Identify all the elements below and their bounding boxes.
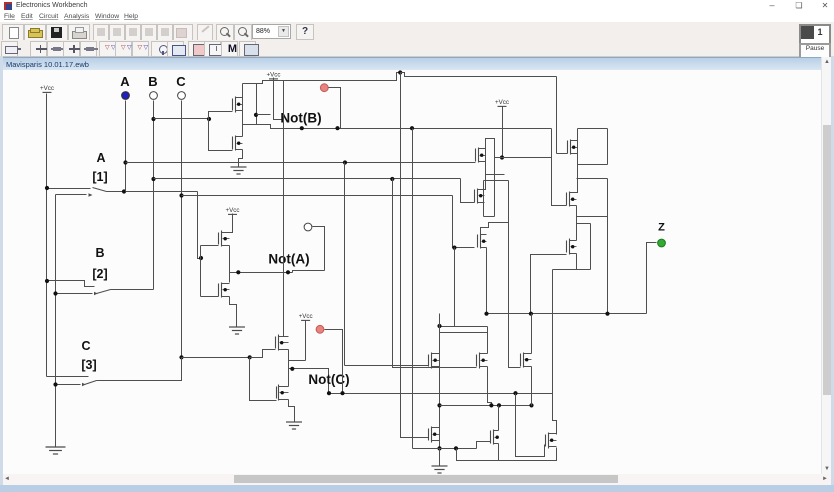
- ground GND3: [286, 422, 302, 429]
- wire net326 horizontal: [440, 326, 488, 328]
- wire B terminal down: [153, 101, 155, 290]
- transistor Q13: [429, 353, 440, 369]
- wire probe P3 lead: [325, 330, 343, 394]
- transistor Q18: [546, 433, 557, 449]
- wire Not(A) PMOS gate lead: [201, 245, 219, 247]
- transistor Q2 NMOS Not(B): [233, 136, 243, 151]
- wire output box2 bottom: [577, 216, 608, 218]
- wire Not(A) output right: [230, 272, 293, 274]
- wire output box1 top: [578, 128, 608, 130]
- +Vcc supply V4: [299, 313, 313, 320]
- wire Q9 source down to Z net: [486, 248, 488, 314]
- probe terminal B input: [150, 92, 158, 100]
- probe terminal C input: [178, 92, 186, 100]
- svg-text:[3]: [3]: [81, 358, 96, 372]
- probe terminal Z output: [658, 239, 666, 247]
- wire net Not(C) output horizontal: [329, 393, 553, 395]
- wire Q15 source down to net405: [531, 367, 533, 406]
- wire A terminal down: [125, 101, 127, 192]
- wire Q13-Q16 drain column: [439, 327, 441, 449]
- wire Not(C) output right: [289, 369, 329, 394]
- probe terminal A input: [122, 92, 130, 100]
- wire Not(B) rail jog: [257, 73, 401, 84]
- wire Not(B) gate connections: [209, 112, 233, 119]
- wire mid inner left: [483, 181, 485, 217]
- switch B [2]: [47, 281, 111, 296]
- transistor Q9 NMOS mid2: [478, 234, 487, 249]
- wire Not(B) out distribution down: [412, 129, 414, 449]
- bottom scrollbar: [0, 474, 834, 485]
- wire C tap to right: [182, 195, 453, 197]
- wire probe P2 lead: [313, 227, 325, 271]
- wire bottom-right vertical: [553, 270, 557, 435]
- wire Not(C) NMOS gate: [250, 358, 277, 401]
- ground GND0: [46, 447, 66, 454]
- transistor Q5 PMOS Not(C): [276, 335, 289, 351]
- svg-text:[1]: [1]: [92, 170, 107, 184]
- wire Q10 gate lead from vcc vertical: [557, 153, 568, 155]
- wire Q7 box to +Vcc link: [495, 157, 503, 159]
- wire Q12 source down to box bottom: [576, 254, 578, 270]
- wire net326 box bottom: [440, 332, 488, 334]
- svg-text:+Vcc: +Vcc: [299, 313, 313, 320]
- wire link Z net to net326: [439, 314, 441, 327]
- transistor Q8 NMOS mid: [475, 189, 485, 204]
- wire mid box1 bottom: [486, 174, 505, 176]
- svg-text:+Vcc: +Vcc: [495, 99, 509, 106]
- wire Not(A) PMOS drain to +Vcc: [230, 214, 233, 233]
- wire Q14 drain up to net326: [487, 327, 489, 354]
- ground GND4: [432, 466, 448, 473]
- wire Z net up to probe: [647, 243, 657, 314]
- transistor Q3 PMOS Not(A): [219, 231, 230, 247]
- wire Q7 source to Q8 drain: [485, 175, 486, 190]
- svg-text:A: A: [96, 151, 105, 165]
- transistor Q10 PMOS right: [568, 140, 578, 155]
- bottom window edge: [0, 485, 834, 492]
- +Vcc supply V5: [495, 99, 509, 106]
- wire +Vcc top rail to right: [401, 73, 557, 77]
- svg-text:Not(B): Not(B): [280, 111, 321, 126]
- wire +Vcc V4 riser down: [305, 321, 307, 361]
- wire bottom-right feed down: [553, 269, 577, 271]
- wire V4 riser link: [289, 360, 306, 362]
- wire ground feed bottom: [439, 449, 441, 467]
- wire Q10 drain vertical: [577, 129, 579, 165]
- power switch: [799, 24, 831, 45]
- wire Not(A) NMOS source to ground: [230, 297, 237, 327]
- wire Not(C) supply feed from top rail: [284, 81, 289, 337]
- right scrollbar: [821, 57, 832, 478]
- wire A-tap branch down to bottom gate: [344, 163, 346, 366]
- wire Not(B) drain rect left: [242, 84, 244, 125]
- menu bar: [0, 12, 834, 23]
- wire Not(A) input from switch A: [198, 192, 201, 259]
- wire mid outer right: [508, 181, 510, 223]
- wire C tap down to U5 gate: [453, 196, 475, 248]
- wire B tap to right: [154, 178, 461, 180]
- svg-text:Z: Z: [658, 222, 665, 234]
- wire right narrow box bottom: [577, 269, 591, 271]
- wire Q15 drain up to Z net: [531, 314, 533, 354]
- wire Not(A) output rail: [229, 246, 231, 283]
- wire N4 gate feed down (Not B out): [552, 129, 567, 206]
- wire Not(B) rect jog to output: [257, 114, 271, 116]
- transistor Q4 NMOS Not(A): [219, 283, 230, 298]
- wire Z net horizontal: [487, 313, 647, 315]
- wire bottom left link: [413, 448, 477, 450]
- wire branch down to net326: [454, 248, 456, 327]
- probe terminal P3 red: [316, 325, 324, 333]
- +Vcc rail left vertical wire: [46, 94, 48, 377]
- wire Not(A) output jog up: [293, 271, 325, 273]
- wire net405 horizontal: [440, 405, 532, 407]
- svg-text:B: B: [95, 246, 104, 260]
- node junction: [452, 246, 456, 250]
- wire mid inner bottom: [484, 216, 495, 218]
- transistor Q14: [477, 353, 488, 369]
- transistor Q1 PMOS Not(B): [233, 97, 243, 113]
- wire V5 down: [502, 107, 504, 158]
- wire Q14 gate feed from B branch: [393, 179, 477, 368]
- svg-text:+Vcc: +Vcc: [226, 207, 240, 214]
- wire Not(A) gate bus: [200, 246, 202, 297]
- wire +Vcc branch down mid: [556, 77, 558, 154]
- wire Not(C) NMOS source to ground: [289, 400, 295, 423]
- svg-text:[2]: [2]: [92, 267, 107, 281]
- transistor Q11 NMOS right: [567, 192, 577, 207]
- wire Not(B) NMOS source to ground: [239, 150, 243, 167]
- wire B tap to Not(B) input: [154, 118, 209, 120]
- wire Not(C) PMOS gate staircase: [250, 350, 276, 358]
- wire output box2 top: [577, 178, 608, 180]
- wire bottom bus down: [457, 448, 557, 461]
- probe terminal P1 red: [320, 84, 328, 92]
- svg-text:C: C: [176, 74, 186, 89]
- wire B tap turn down to U4 gate: [461, 179, 475, 203]
- wire output rail down to Z net: [607, 179, 609, 314]
- wire right narrow box right: [590, 224, 592, 270]
- svg-text:Not(A): Not(A): [268, 252, 309, 267]
- wire probe P1 lead: [329, 88, 341, 129]
- wire right narrow box top: [577, 223, 591, 225]
- switch A [1] (voltage controlled SPDT): [47, 188, 107, 197]
- wire switch C output: [97, 358, 182, 381]
- wire Q14 source down: [488, 367, 492, 406]
- toolbar row 1: [0, 22, 834, 41]
- wire Q8 source join: [484, 203, 485, 217]
- +Vcc supply V3: [226, 207, 240, 214]
- svg-text:B: B: [148, 74, 157, 89]
- transistor Q7 PMOS mid: [476, 148, 486, 163]
- pause button: [799, 43, 831, 59]
- svg-text:+Vcc: +Vcc: [40, 85, 54, 92]
- wire +Vcc long vertical down: [401, 73, 429, 438]
- svg-text:A: A: [120, 74, 130, 89]
- probe terminal P2 white: [304, 223, 312, 231]
- wire Not(B) NMOS drain up: [242, 125, 244, 137]
- wire Q10 source to Q11 drain: [577, 154, 578, 193]
- wire Q11 source to Q12 drain: [576, 206, 578, 241]
- wire Not(C) input: [182, 357, 250, 359]
- wire +Vcc V2 stub down: [274, 78, 284, 120]
- svg-text:C: C: [81, 339, 90, 353]
- wire switch B output: [111, 289, 154, 291]
- wire output box1 right: [607, 129, 609, 165]
- wire switch A output: [107, 191, 198, 193]
- wire mid inner right: [494, 175, 496, 217]
- transistor Q12 NMOS right2: [567, 239, 577, 255]
- left window edge: [0, 56, 3, 492]
- wire Not(B) drain rect top: [243, 83, 257, 85]
- wire Q7 drain box: [486, 139, 495, 175]
- wire Not(C) output rail: [288, 350, 290, 387]
- wire Not(B) drain rect right: [256, 84, 258, 125]
- wire Q17 drain up to net405: [498, 406, 500, 431]
- wire C terminal down: [181, 101, 183, 381]
- ground rail left vertical wire: [55, 195, 57, 447]
- wire Q15 gate feed from mid column: [509, 223, 521, 368]
- window title bar: [0, 0, 834, 12]
- wire Q17 source down: [498, 444, 500, 461]
- transistor Q16: [429, 427, 440, 443]
- svg-text:Not(C): Not(C): [308, 372, 349, 387]
- wire Q10 gate feed: [503, 157, 552, 159]
- toolbar row 2: [0, 40, 834, 57]
- transistor Q17: [491, 430, 499, 445]
- wire Q12 gate feed from Z branch: [531, 255, 567, 314]
- wire mid staircase to Q9 drain: [481, 223, 509, 235]
- wire Q18 gate feed: [516, 394, 545, 457]
- wire Not(B) output to right: [243, 125, 552, 129]
- switch C [3]: [47, 377, 97, 387]
- +Vcc supply V2: [267, 72, 281, 79]
- transistor Q6 NMOS Not(C): [277, 385, 289, 401]
- wire mid outer top: [484, 180, 509, 182]
- document title bar: [0, 57, 834, 71]
- right window edge: [831, 56, 834, 492]
- wire Not(A) NMOS gate lead: [201, 296, 219, 298]
- ground GND1: [231, 167, 247, 174]
- wire Q13 gate feed: [345, 365, 429, 367]
- wire output box1 bottom: [578, 164, 608, 166]
- wire A tap to right (gate bus): [126, 162, 476, 164]
- ground GND2: [229, 327, 245, 334]
- +Vcc supply V1: [40, 85, 54, 92]
- transistor Q15: [521, 353, 532, 368]
- wire Q17 gate feed: [477, 442, 491, 449]
